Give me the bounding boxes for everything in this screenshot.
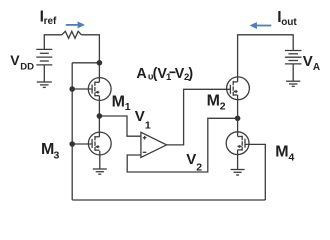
svg-text:M: M <box>112 93 125 110</box>
battery VDD <box>36 49 52 82</box>
svg-text:DD: DD <box>20 61 34 72</box>
svg-text:ref: ref <box>44 16 57 27</box>
battery VA <box>285 51 302 82</box>
wire M1 drain to gate feedback line <box>72 62 99 64</box>
svg-text:out: out <box>281 17 297 28</box>
node V1 junction <box>97 113 103 119</box>
wire M1 gate stub <box>72 88 92 90</box>
wire M4 gate riser <box>245 144 265 200</box>
svg-text:4: 4 <box>289 151 295 163</box>
svg-text:V: V <box>10 52 20 68</box>
svg-text:V: V <box>186 151 196 168</box>
wire M3 source to ground <box>99 151 101 169</box>
ground (M3 source) <box>93 169 107 174</box>
svg-text:3: 3 <box>54 150 60 162</box>
ground (VA) <box>286 81 300 86</box>
wire M4 source to ground <box>237 150 239 170</box>
svg-text:1: 1 <box>145 119 151 131</box>
transistor M4 (mirrored) <box>226 132 249 155</box>
node M1 drain junction <box>97 60 103 66</box>
svg-text:M: M <box>41 141 54 158</box>
wire M1 source to M3 drain (node V1) <box>98 96 100 137</box>
svg-text:A: A <box>136 66 146 82</box>
ground (M4 source) <box>231 170 245 176</box>
svg-text:V: V <box>303 53 313 70</box>
resistor Rref <box>62 31 82 38</box>
ground (VDD) <box>37 82 52 87</box>
wire op-amp output to M2 gate <box>167 89 230 145</box>
node M3 gate junction <box>69 141 75 147</box>
svg-text:1: 1 <box>166 72 172 83</box>
node V2 junction <box>235 116 241 122</box>
current arrow Iout <box>250 22 272 29</box>
wire M2 source to M4 drain (node V2) <box>237 95 239 137</box>
svg-text:): ) <box>188 66 193 82</box>
wire M3 gate stub <box>72 143 92 145</box>
wire top right rail M2 drain to VA <box>238 35 294 82</box>
current arrow Iref <box>66 21 85 28</box>
svg-text:1: 1 <box>125 101 131 113</box>
svg-text:M: M <box>207 92 220 109</box>
node M1 gate junction <box>69 86 75 92</box>
wire resistor to M1 drain <box>81 35 99 83</box>
transistor M3 <box>88 132 111 155</box>
transistor M2 <box>227 77 250 100</box>
label Av(V1-V2) <box>136 66 193 83</box>
svg-text:2: 2 <box>220 100 226 112</box>
svg-text:V: V <box>135 108 145 125</box>
svg-text:M: M <box>275 143 288 160</box>
wire VDD top rail to resistor <box>44 35 62 50</box>
transistor M1 <box>88 78 111 101</box>
wire node V1 to op-amp + input <box>99 116 140 136</box>
svg-text:2: 2 <box>196 162 202 174</box>
wire op-amp - input to node V2 <box>127 118 237 172</box>
op-amp U1 <box>141 132 167 157</box>
svg-text:A: A <box>313 62 320 73</box>
wire bottom gate rail <box>72 199 265 201</box>
wire gate feedback vertical (M1,M3 gates to bottom rail) <box>71 63 73 200</box>
